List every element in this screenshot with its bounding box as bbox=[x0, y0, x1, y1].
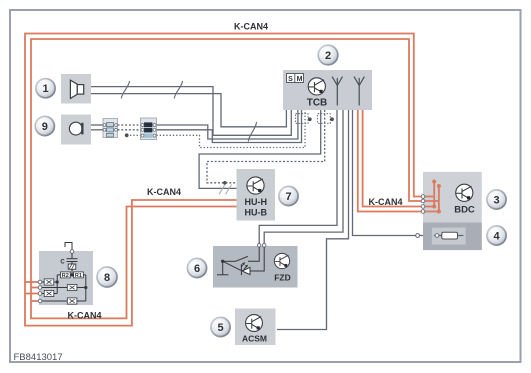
K-CAN4 wire TCB to BDC pin4 bbox=[358, 110, 423, 212]
FZD internal switch circuit bbox=[217, 247, 259, 275]
ECU symbol HU bbox=[247, 177, 264, 194]
svg-text:S: S bbox=[288, 76, 293, 83]
BDC internal K-CAN wires bbox=[423, 182, 439, 212]
wire LED to pin2 bbox=[250, 247, 264, 271]
junction node in box 8 bbox=[70, 273, 73, 276]
choke row D bbox=[42, 298, 86, 304]
svg-text:M: M bbox=[297, 76, 303, 83]
fuse terminal circle inner bbox=[435, 234, 439, 238]
fuse F1 bbox=[442, 232, 458, 239]
callout 2 bbox=[318, 45, 338, 65]
junction dots BDC bbox=[432, 180, 441, 214]
microphone wire 2 to TCB bbox=[157, 110, 302, 143]
speaker box bbox=[61, 74, 91, 104]
BDC box bbox=[423, 172, 482, 250]
SIM label in TCB bbox=[287, 74, 304, 84]
resistor R2 bbox=[61, 272, 71, 279]
svg-text:HU-B: HU-B bbox=[245, 208, 268, 218]
callout 9 bbox=[35, 116, 54, 135]
resistor R1 bbox=[74, 272, 84, 279]
inline connector under TCB (left) bbox=[296, 114, 312, 124]
svg-text:1: 1 bbox=[42, 83, 48, 95]
K-CAN4 bus wire inner loop bbox=[31, 39, 423, 318]
capacitor C in box 8 bbox=[67, 253, 78, 264]
terminal circle on fuse wire bbox=[416, 234, 420, 238]
svg-text:HU-H: HU-H bbox=[245, 197, 268, 207]
svg-text:K-CAN4: K-CAN4 bbox=[147, 187, 181, 197]
box 8 left terminals bbox=[38, 280, 42, 303]
shield splice dot bbox=[125, 133, 129, 137]
svg-text:2: 2 bbox=[325, 50, 331, 62]
TCB wire to BDC fuse bbox=[353, 110, 416, 236]
left rail in box 8 bbox=[56, 275, 58, 294]
svg-text:K-CAN4: K-CAN4 bbox=[234, 21, 268, 31]
right rail in box 8 bbox=[85, 275, 87, 301]
ACSM box bbox=[235, 309, 276, 346]
microphone wires into connector bbox=[91, 125, 103, 130]
ECU symbol ACSM bbox=[246, 315, 263, 332]
junction dot FZD bbox=[221, 260, 224, 263]
junction dot on dashed HU wire bbox=[223, 181, 227, 185]
TCB wire to FZD pin2 bbox=[264, 110, 343, 245]
TCB wire to FZD pin1 bbox=[259, 110, 337, 245]
microphone box bbox=[61, 115, 91, 145]
svg-text:K-CAN4: K-CAN4 bbox=[67, 310, 101, 320]
svg-text:4: 4 bbox=[493, 230, 500, 242]
filter box 8 bbox=[39, 251, 93, 305]
microphone shield wire (dotted) to TCB bbox=[127, 110, 305, 148]
FZD pin terminals bbox=[257, 244, 266, 248]
ECU symbol TCB bbox=[308, 78, 325, 95]
choke row A bbox=[42, 279, 57, 285]
TCB wire to ACSM bbox=[277, 110, 349, 330]
ground symbol above box 8 bbox=[65, 243, 72, 251]
callout 3 bbox=[487, 190, 506, 209]
ECU symbol FZD bbox=[274, 253, 289, 268]
LED / sensor diode in FZD bbox=[241, 264, 250, 275]
TCB box bbox=[283, 70, 372, 110]
callout 8 bbox=[97, 267, 117, 287]
svg-text:FZD: FZD bbox=[274, 273, 291, 283]
TCB to HU-H wire (dashed) with junction dot bbox=[207, 110, 325, 183]
svg-text:TCB: TCB bbox=[307, 98, 328, 109]
faint twist slashes near HU-H bbox=[219, 185, 232, 195]
box 8 top terminal bbox=[70, 250, 74, 254]
ECU symbol BDC bbox=[456, 184, 473, 201]
fuse section inner panel bbox=[432, 228, 466, 245]
svg-text:9: 9 bbox=[42, 121, 48, 133]
resistor row line bbox=[57, 274, 86, 276]
wire to junction bbox=[71, 269, 73, 275]
FZD box bbox=[213, 246, 298, 288]
antenna 2 bbox=[354, 77, 364, 106]
svg-text:ACSM: ACSM bbox=[242, 334, 267, 344]
HU-H HU-B box bbox=[237, 169, 276, 221]
K-CAN4 bus wire outer loop (left vertical, top, right vertical to BDC pin1, bottom loop to HU riser) bbox=[25, 34, 423, 326]
svg-text:K-CAN4: K-CAN4 bbox=[368, 197, 402, 207]
microphone wire 1 to TCB bbox=[157, 110, 298, 139]
svg-text:7: 7 bbox=[285, 191, 291, 203]
sensor arrows bbox=[241, 262, 248, 269]
antenna 1 bbox=[332, 77, 342, 106]
twist slash marks on speaker pair bbox=[121, 81, 256, 142]
callout 4 bbox=[487, 226, 506, 245]
callout 1 bbox=[36, 79, 55, 98]
callout 5 bbox=[211, 317, 230, 336]
svg-text:8: 8 bbox=[104, 272, 110, 284]
inline connector C3 (microphone) bbox=[103, 119, 118, 138]
svg-text:C: C bbox=[60, 259, 65, 265]
svg-text:BDC: BDC bbox=[454, 205, 475, 216]
svg-text:R1: R1 bbox=[75, 273, 82, 279]
inline connector C2 (microphone) bbox=[141, 118, 157, 140]
rail junction dots bbox=[56, 280, 59, 283]
callout 6 bbox=[187, 258, 206, 277]
speaker wire pair to TCB bbox=[91, 87, 291, 136]
fuse wire inside bbox=[434, 235, 464, 237]
BDC terminals bbox=[421, 195, 425, 214]
K-CAN4 stub wires into filter box 8 bbox=[25, 282, 39, 301]
TCB to HU-H wire (solid) bbox=[199, 110, 321, 188]
svg-text:FB8413017: FB8413017 bbox=[14, 352, 63, 363]
choke row B bbox=[42, 284, 86, 290]
svg-text:6: 6 bbox=[194, 263, 200, 275]
inline connector under TCB (right) bbox=[318, 114, 334, 124]
callout 7 bbox=[279, 186, 298, 205]
dashed wires between inline connectors bbox=[118, 125, 141, 130]
svg-text:3: 3 bbox=[493, 194, 499, 206]
K-CAN4 wire TCB to BDC pin3 bbox=[363, 110, 423, 207]
svg-text:R2: R2 bbox=[62, 273, 69, 279]
choke row C bbox=[42, 290, 57, 296]
damping resistor (hatched) in box 8 bbox=[68, 264, 76, 269]
svg-text:5: 5 bbox=[217, 322, 223, 334]
